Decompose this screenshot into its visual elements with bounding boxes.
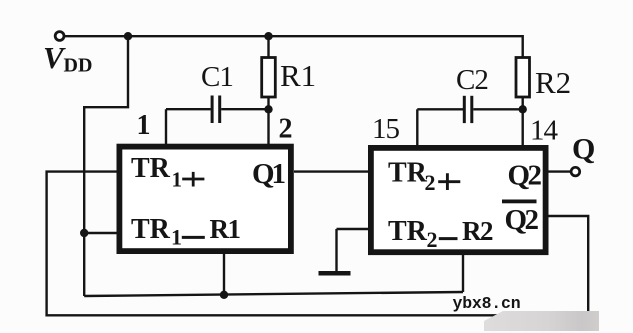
wire VDD top rail to R2 <box>64 36 523 58</box>
svg-text:C1: C1 <box>201 61 233 93</box>
junction reset rail / U1 reset pin <box>220 291 228 299</box>
ground <box>319 271 351 276</box>
svg-text:14: 14 <box>530 115 559 147</box>
terminal VDD <box>55 32 64 41</box>
resistor R2 <box>516 58 530 98</box>
junction R1/C1/pin2 node <box>264 105 272 113</box>
wire TR1- input <box>84 232 118 234</box>
svg-text:Q: Q <box>572 133 595 166</box>
terminal Q <box>571 167 580 176</box>
monostable U2 box <box>371 148 546 252</box>
svg-text:DD: DD <box>64 55 93 77</box>
wire C2 left lead from pin 15 <box>417 108 463 110</box>
junction R2/C2/pin14 node <box>519 105 527 113</box>
svg-text:2: 2 <box>427 227 438 252</box>
svg-text:C2: C2 <box>456 64 488 96</box>
svg-text:Q2: Q2 <box>508 160 542 192</box>
svg-text:TR: TR <box>131 214 171 245</box>
junction top rail / VDD branch <box>124 32 132 40</box>
wire TR2- input <box>337 228 371 230</box>
wire Q2 output <box>544 170 572 172</box>
wire C2 right lead <box>473 108 522 110</box>
wire pin 15 <box>416 109 418 149</box>
svg-text:1: 1 <box>137 110 151 141</box>
svg-text:2: 2 <box>279 114 293 145</box>
capacitor C1 <box>211 96 214 124</box>
svg-text:Q2: Q2 <box>505 204 539 236</box>
junction TR1- node <box>80 229 88 237</box>
junction top rail / R1 <box>264 32 272 40</box>
svg-text:1: 1 <box>171 225 182 250</box>
resistor R1 <box>262 58 276 98</box>
svg-text:TR: TR <box>388 216 428 247</box>
svg-text:Q1: Q1 <box>252 158 285 190</box>
wire R1 bottom lead <box>267 97 269 110</box>
watermark bar <box>484 311 599 331</box>
svg-text:R2: R2 <box>535 65 571 100</box>
wire pin 14 <box>522 110 524 149</box>
wire C1 left lead from pin 1 <box>166 108 211 110</box>
wire U1 R1 reset pin <box>223 253 225 295</box>
ground lead <box>335 229 337 272</box>
wire Q2-bar feedback to TR1+ input <box>47 172 589 316</box>
wire R2 bottom lead <box>522 97 524 111</box>
wire R1 top lead <box>267 36 269 58</box>
wire pin 1 <box>165 109 167 149</box>
svg-text:ybx8.cn: ybx8.cn <box>453 294 521 313</box>
svg-text:R1: R1 <box>210 214 241 244</box>
wire C1 right lead <box>221 108 268 110</box>
monostable U1 box <box>119 147 291 252</box>
svg-text:TR: TR <box>388 158 428 189</box>
wire U2 R2 reset pin <box>462 253 464 292</box>
svg-text:2: 2 <box>425 170 436 195</box>
svg-text:R1: R1 <box>280 58 316 93</box>
capacitor C2 <box>463 96 466 123</box>
wire Q1 output to TR2+ input <box>294 170 370 172</box>
svg-text:R2: R2 <box>462 216 493 246</box>
label Q2-bar overline <box>502 200 537 204</box>
wire VDD branch down-left to TR1- node <box>84 36 128 296</box>
svg-text:15: 15 <box>372 113 400 145</box>
svg-text:1: 1 <box>172 168 183 192</box>
wire pin 2 <box>267 110 269 149</box>
svg-text:TR: TR <box>131 153 171 184</box>
wire reset rail <box>84 292 463 296</box>
